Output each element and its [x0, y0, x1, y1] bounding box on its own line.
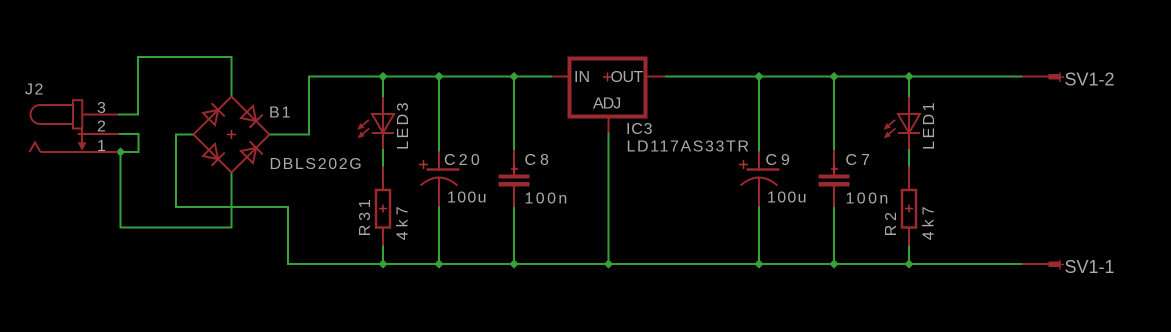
capacitor C20: [421, 152, 460, 207]
emission arrows LED1: [881, 118, 897, 133]
wire net J2 pin2 loop: [119, 134, 139, 152]
svg-text:4k7: 4k7: [395, 203, 412, 241]
connector J2: [30, 100, 120, 152]
voltage regulator IC3: [552, 59, 665, 133]
junction bottom rail x608.5: [604, 259, 613, 268]
wire IC OUT to SV1-2 (top rail right): [665, 76, 1023, 78]
svg-text:LD117AS33TR: LD117AS33TR: [627, 139, 751, 156]
svg-text:R31: R31: [357, 195, 374, 236]
bridge rectifier B1: [194, 97, 270, 173]
diode B1 top-right: [240, 105, 262, 127]
svg-text:IC3: IC3: [626, 121, 653, 138]
svg-text:C20: C20: [444, 152, 483, 169]
junction J2 sleeve node: [116, 147, 125, 156]
svg-text:100u: 100u: [447, 190, 488, 207]
svg-text:LED3: LED3: [395, 100, 412, 150]
junction top rail x759: [754, 72, 763, 81]
svg-text:4k7: 4k7: [921, 203, 938, 241]
svg-text:C8: C8: [525, 152, 553, 169]
svg-text:OUT: OUT: [611, 69, 644, 86]
svg-text:C9: C9: [766, 152, 794, 169]
resistor R31: [376, 167, 390, 246]
svg-text:B1: B1: [269, 105, 293, 122]
junction top rail x909: [904, 72, 913, 81]
wire C8 branch: [513, 77, 515, 151]
svg-text:IN: IN: [574, 69, 590, 86]
svg-text:100u: 100u: [767, 190, 808, 207]
wire C9 branch: [758, 77, 760, 152]
svg-text:ADJ: ADJ: [593, 96, 620, 113]
wire bridge plus to IC IN (top rail left): [270, 77, 553, 135]
wire sleeve to bridge bottom: [121, 152, 232, 228]
capacitor C7: [819, 150, 850, 207]
wire bridge minus to bottom rail: [176, 135, 1023, 265]
junction bottom rail x383: [378, 259, 387, 268]
svg-text:SV1-2: SV1-2: [1065, 70, 1115, 90]
junction top rail x439: [434, 72, 443, 81]
wire net J2 pin3 to bridge top: [118, 57, 232, 115]
junction top rail x514: [509, 72, 518, 81]
capacitor C9: [741, 152, 780, 207]
origin cross C8: [511, 166, 518, 173]
origin cross B1: [227, 130, 236, 139]
wire C7 branch: [833, 77, 835, 151]
svg-text:R2: R2: [883, 208, 900, 236]
LED LED1: [898, 97, 920, 149]
resistor R2: [902, 167, 916, 246]
wire LED3 branch: [382, 77, 384, 98]
svg-text:J2: J2: [25, 82, 45, 99]
svg-text:2: 2: [97, 119, 106, 136]
plus mark C20: [419, 160, 428, 169]
junction bottom rail x759: [754, 259, 763, 268]
origin cross R31: [379, 205, 387, 213]
emission arrows LED3: [355, 118, 371, 133]
wire C20 branch: [438, 77, 440, 152]
origin cross C7: [831, 166, 838, 173]
svg-text:100n: 100n: [846, 191, 891, 208]
svg-text:100n: 100n: [525, 191, 570, 208]
svg-text:1: 1: [97, 138, 106, 155]
diode B1 bottom-right: [240, 141, 262, 163]
junction top rail x834: [829, 72, 838, 81]
svg-text:DBLS202G: DBLS202G: [270, 156, 364, 173]
plus mark C9: [739, 160, 748, 169]
svg-text:SV1-1: SV1-1: [1065, 257, 1115, 277]
wire IC ADJ down: [608, 133, 610, 265]
pin SV1-2: [1023, 73, 1065, 83]
diode B1 top-left: [202, 103, 224, 125]
junction bottom rail x834: [829, 259, 838, 268]
capacitor C8: [499, 150, 530, 207]
diode B1 bottom-left: [202, 143, 224, 165]
wire LED1 branch: [908, 77, 910, 98]
pin SV1-1: [1023, 260, 1065, 270]
svg-text:LED1: LED1: [921, 100, 938, 150]
origin cross R2: [905, 205, 913, 213]
junction bottom rail x439: [434, 259, 443, 268]
LED LED3: [372, 97, 394, 149]
junction top rail x383: [378, 72, 387, 81]
junction bottom rail x514: [509, 259, 518, 268]
svg-text:3: 3: [97, 100, 106, 117]
origin cross IC3: [603, 73, 612, 82]
svg-text:C7: C7: [846, 152, 874, 169]
junction bottom rail x909: [904, 259, 913, 268]
